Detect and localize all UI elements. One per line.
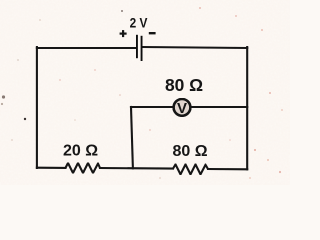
svg-text:80 Ω: 80 Ω [172, 143, 207, 160]
wire: middle vertical branch [131, 107, 133, 168]
voltmeter V1 circle [174, 99, 191, 116]
plus sign [120, 30, 127, 37]
wire: bottom right segment [208, 168, 247, 170]
wire: top-left segment to battery [37, 47, 136, 49]
resistor R1 20ohm zigzag [66, 163, 101, 173]
wire: bottom segment between resistors [100, 167, 173, 170]
battery B1 2V [137, 35, 142, 61]
wire: middle horizontal (right of voltmeter) [190, 106, 247, 108]
svg-text:80 Ω: 80 Ω [165, 75, 203, 95]
wire: bottom left segment [37, 167, 66, 169]
wire: left side vertical [36, 47, 38, 168]
wire: middle horizontal (left of voltmeter) [131, 106, 174, 108]
svg-text:20 Ω: 20 Ω [63, 143, 98, 160]
resistor R2 80ohm zigzag (bottom right) [173, 164, 208, 174]
wire: right side vertical [246, 47, 248, 169]
svg-text:V: V [177, 100, 187, 117]
svg-text:2 V: 2 V [130, 16, 148, 32]
minus sign [149, 32, 156, 34]
wire: battery to top-right corner [143, 47, 248, 48]
